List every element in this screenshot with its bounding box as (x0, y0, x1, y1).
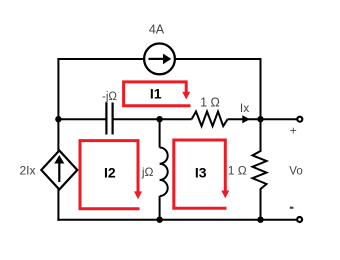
wire top-right segment (174, 58, 262, 60)
wire bottom (57, 219, 261, 221)
svg-text:I1: I1 (150, 86, 162, 102)
node B (center middle junction) (156, 116, 162, 122)
wire left vertical to source (57, 119, 59, 151)
wire right vertical upper (260, 58, 262, 119)
svg-text:I3: I3 (195, 165, 207, 181)
node D (center bottom junction) (156, 217, 162, 223)
capacitor -jΩ (106, 103, 112, 135)
wire output top (261, 118, 298, 120)
wire middle capacitor to resistor (113, 118, 192, 120)
node E (right bottom junction) (257, 217, 263, 223)
wire top-left segment (57, 58, 145, 60)
svg-text:1 Ω: 1 Ω (200, 95, 220, 109)
svg-text:1 Ω: 1 Ω (228, 164, 247, 178)
wire left vertical upper (57, 58, 59, 119)
svg-text:jΩ: jΩ (141, 165, 154, 179)
Ix arrowhead (242, 115, 250, 123)
resistor 1Ω horizontal (192, 112, 228, 127)
wire output bottom (261, 219, 298, 221)
wire right below resistor (260, 189, 262, 221)
svg-text:Vo: Vo (289, 165, 302, 177)
svg-text:I2: I2 (104, 165, 116, 181)
node C (right middle junction) (257, 116, 263, 122)
svg-text:2Ix: 2Ix (19, 164, 35, 178)
svg-text:4A: 4A (149, 23, 165, 37)
terminal - (297, 217, 302, 222)
node A (left middle junction) (55, 116, 61, 122)
mesh loop I1 (124, 82, 191, 106)
wire middle left of capacitor (58, 118, 106, 120)
current source 4A (144, 44, 175, 75)
svg-text:Ix: Ix (240, 101, 249, 115)
wire middle branch below inductor (159, 196, 161, 221)
svg-text:+: + (290, 124, 297, 138)
terminal + (297, 117, 302, 122)
mesh loop I2 (80, 141, 142, 209)
label - (290, 207, 294, 209)
mesh loop I3 (174, 140, 230, 208)
inductor jΩ (160, 148, 168, 197)
wire right node to resistor (260, 119, 262, 152)
resistor 1Ω vertical (253, 151, 267, 189)
svg-text:-jΩ: -jΩ (102, 91, 117, 103)
wire middle branch above inductor (159, 119, 161, 147)
dependent source 2Ix (41, 151, 77, 190)
wire middle resistor to node (228, 118, 261, 120)
wire left vertical below source (57, 189, 59, 221)
